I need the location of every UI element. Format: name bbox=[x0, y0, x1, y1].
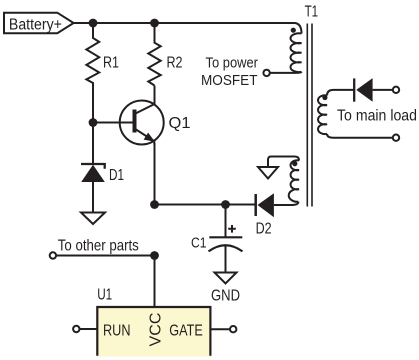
inductor T1 secondary winding bbox=[318, 90, 393, 138]
node To main load bottom terminal bbox=[337, 107, 417, 141]
diode main load rectifier bbox=[354, 78, 392, 102]
svg-text:Battery+: Battery+ bbox=[9, 16, 62, 33]
capacitor C1 bbox=[191, 205, 243, 273]
node junction dot top rail at R1 bbox=[89, 19, 98, 28]
inductor T1 primary winding bbox=[270, 28, 302, 73]
svg-text:VCC: VCC bbox=[148, 313, 165, 347]
svg-text:MOSFET: MOSFET bbox=[201, 72, 258, 89]
svg-text:Q1: Q1 bbox=[169, 115, 191, 132]
ground arrow at aux winding bbox=[258, 167, 278, 179]
node To other parts terminal bbox=[50, 238, 155, 259]
wire VCC down to U1 bbox=[154, 256, 156, 308]
resistor R1 bbox=[86, 23, 119, 123]
svg-text:R1: R1 bbox=[103, 55, 119, 72]
inductor T1 aux winding bbox=[268, 157, 299, 202]
wire Q1 emitter down bbox=[154, 143, 156, 205]
svg-text:GND: GND bbox=[211, 288, 240, 305]
diode D2 bbox=[256, 193, 274, 237]
diode D1 bbox=[81, 123, 124, 213]
svg-text:T1: T1 bbox=[305, 4, 319, 21]
resistor R2 bbox=[148, 23, 182, 86]
svg-text:C1: C1 bbox=[191, 235, 207, 252]
svg-text:To power: To power bbox=[206, 55, 259, 72]
svg-text:R2: R2 bbox=[167, 55, 183, 72]
svg-text:RUN: RUN bbox=[103, 323, 131, 340]
wire emitter node to D2 bbox=[155, 204, 256, 206]
transistor Q1 bbox=[120, 86, 191, 145]
svg-text:D1: D1 bbox=[109, 167, 124, 184]
node junction dot emitter wire bbox=[150, 200, 159, 209]
svg-text:U1: U1 bbox=[97, 286, 112, 303]
svg-text:D2: D2 bbox=[256, 221, 272, 238]
transformer T1 core bbox=[305, 4, 319, 207]
wire top rail from Battery+ to transformer primary bbox=[73, 23, 302, 34]
op-amp U1 controller box bbox=[96, 286, 211, 356]
svg-text:To main load: To main load bbox=[337, 107, 417, 124]
wire D2 to aux winding bbox=[274, 202, 298, 205]
pin RUN terminal bbox=[73, 326, 97, 332]
ground GND below C1 bbox=[211, 273, 240, 305]
ground below D1 bbox=[81, 213, 105, 225]
wire Q1 base bbox=[93, 122, 134, 124]
svg-text:To other parts: To other parts bbox=[58, 238, 139, 255]
svg-text:GATE: GATE bbox=[169, 323, 203, 340]
pin GATE terminal bbox=[210, 326, 236, 332]
node junction dot top rail at R2 bbox=[150, 19, 159, 28]
node junction dot C1 top bbox=[221, 200, 230, 209]
node To power MOSFET terminal bbox=[201, 55, 270, 89]
node Battery+ flag bbox=[4, 13, 74, 34]
node To main load top terminal bbox=[393, 87, 399, 93]
node junction dot VCC wire bbox=[150, 251, 159, 260]
node junction dot Q1 base / R1 / D1 bbox=[89, 118, 98, 127]
